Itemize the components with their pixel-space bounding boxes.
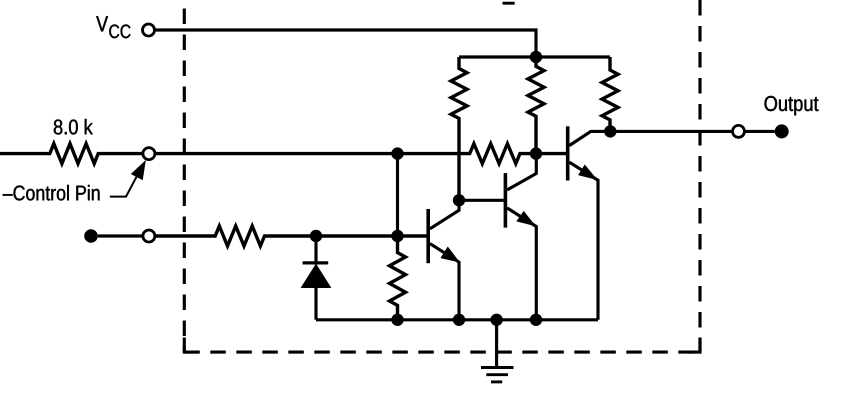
ground stem: [495, 320, 498, 368]
label Output: [765, 96, 819, 115]
dashed IC boundary left border: [183, 9, 186, 353]
node rail x=397.5: [391, 314, 403, 326]
wire connecting upper and lower control junctions: [396, 154, 399, 236]
lower input open-circle terminal: [143, 230, 155, 242]
output open-circle terminal: [733, 125, 745, 137]
node control junction x=397.5 on upper wire: [391, 147, 403, 159]
lower input filled terminal: [84, 229, 98, 243]
node Q3 collector / R3 / output: [604, 125, 616, 137]
lower input wire: filled terminal to open terminal: [98, 234, 143, 237]
control pin open-circle terminal: [143, 148, 155, 160]
diode D1 triangle: [302, 265, 331, 288]
dashed IC boundary bottom-left corner mark: [184, 338, 197, 353]
transistor Q3 base bar: [566, 126, 570, 180]
wire bottom emitter rail: [316, 318, 598, 321]
transistor Q2 base bar: [504, 173, 508, 228]
transistor Q3 collector: [569, 131, 610, 145]
resistor R2 (middle vertical, x=536): [528, 57, 544, 154]
ground symbol bar 1: [481, 366, 514, 369]
resistor R3 (right vertical, x=610): [602, 57, 618, 131]
output filled terminal: [775, 124, 789, 138]
ground symbol bar 2: [486, 373, 508, 376]
dashed IC boundary bottom border: [184, 351, 700, 354]
dashed IC boundary right border: [698, 0, 701, 352]
control-pin leader arrowhead: [132, 161, 146, 179]
wire top supply rail: [459, 55, 610, 58]
wire output open terminal to filled terminal: [745, 130, 775, 133]
wire lower input with resistor R5 into Q1 base: [155, 226, 427, 246]
node rail ground stem: [490, 314, 502, 326]
node rail x=536: [530, 314, 542, 326]
node rail x=459: [453, 314, 465, 326]
resistor R6 (vertical at x=397.5): [390, 236, 406, 320]
wire Q1 collector to Q2 base: [459, 199, 504, 202]
node x=397.5 lower wire junction: [391, 230, 403, 242]
ground symbol bar 3: [491, 380, 502, 383]
node diode top junction: [310, 230, 322, 242]
control-pin leader line: [110, 171, 140, 196]
transistor Q2 emitter arrowhead: [517, 212, 534, 225]
node VCC rail junction: [530, 51, 542, 63]
dashed IC boundary bottom-right corner mark: [688, 338, 701, 353]
transistor Q3 emitter arrowhead: [579, 166, 596, 180]
wire output from collector node to open terminal: [610, 130, 732, 133]
wire control-pin line with 8.0 k resistor: [0, 144, 143, 164]
diode D1 bottom stem: [314, 288, 317, 320]
label 8.0 k: [54, 119, 93, 135]
label Control Pin: [3, 185, 100, 201]
transistor Q2 collector: [507, 154, 536, 190]
dashed IC boundary top fragment: [503, 2, 515, 5]
diode D1 anode-up clamp: top stem: [314, 236, 317, 261]
node R2 bottom / Q2 collector / Q3 base: [530, 147, 542, 159]
transistor Q1 emitter: [430, 244, 459, 320]
resistor R1 (left vertical, x=459): [451, 57, 467, 200]
VCC open-circle terminal: [143, 24, 155, 36]
wire control line into chip with resistor R4 (horizontal mid): [155, 144, 566, 164]
transistor Q1 emitter arrowhead: [441, 248, 458, 262]
transistor Q1 base bar: [426, 209, 430, 263]
transistor Q3 emitter: [569, 162, 598, 320]
label VCC: [96, 16, 130, 38]
diode D1 cathode bar: [303, 261, 329, 264]
transistor Q2 emitter: [507, 208, 536, 320]
node Q1 collector / R1 / Q2 base: [453, 194, 465, 206]
transistor Q1 collector: [430, 200, 459, 229]
wire VCC terminal to top rail: [155, 30, 536, 57]
